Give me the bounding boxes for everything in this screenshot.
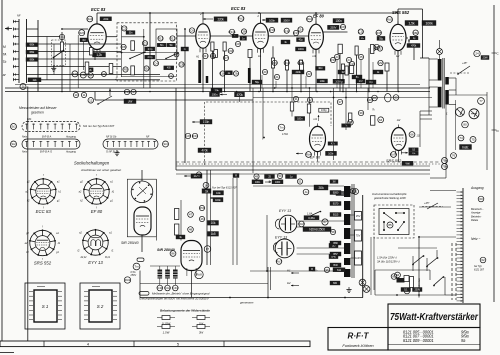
resistor col B: [175, 224, 179, 235]
terminal stub: [457, 224, 463, 226]
wire R38 down: [413, 48, 415, 61]
svg-text:Netz ~: Netz ~: [471, 237, 480, 241]
junction: [267, 297, 269, 299]
terminal stub: [457, 198, 463, 200]
sheet edge tick D: [492, 129, 500, 133]
wire selector out 1: [77, 35, 79, 88]
svg-text:H1: H1: [258, 54, 262, 58]
svg-text:Tm: Tm: [134, 265, 139, 269]
lamp La2: [363, 286, 370, 293]
node 21: [274, 74, 279, 79]
svg-text:R9: R9: [124, 68, 128, 72]
input plus arrow: [5, 27, 12, 31]
node R35: [376, 30, 382, 35]
switch standby: [450, 66, 470, 75]
resistor R64: [371, 116, 375, 126]
svg-text:B·R·B·A: B·R·B·A: [42, 136, 52, 139]
svg-text:40µ: 40µ: [299, 38, 304, 42]
svg-text:C8: C8: [236, 42, 240, 46]
wire V5 down: [397, 51, 399, 92]
value box 5ohm: [329, 243, 338, 247]
svg-text:TA: TA: [3, 52, 7, 56]
tube V10 EYY 13: [279, 215, 297, 233]
output transformer core: [351, 184, 353, 278]
junction: [224, 91, 226, 93]
wire lamp bottom: [439, 55, 441, 60]
wire mid drop: [184, 88, 186, 163]
svg-text:Tb: Tb: [3, 60, 7, 64]
svg-text:C8b: C8b: [241, 30, 247, 34]
arrow H2: [291, 285, 299, 287]
wire R51 top: [309, 88, 311, 104]
svg-text:1000µ: 1000µ: [335, 79, 343, 83]
selector pin: [397, 229, 399, 231]
tube ref Roe1: [87, 16, 93, 22]
switch tone a: [129, 51, 146, 59]
capacitor C52 value: [326, 151, 337, 155]
wire V4 down: [315, 49, 317, 91]
wire extra 5: [336, 60, 338, 88]
svg-text:1k: 1k: [205, 189, 209, 193]
wire extra 3: [291, 74, 293, 88]
resistor R14: [223, 42, 226, 51]
wire mid v2: [345, 88, 347, 130]
resistor grid stopper: [90, 48, 93, 56]
input terminal 1: [13, 20, 19, 23]
svg-text:8121 009 - 00001: 8121 009 - 00001: [403, 338, 434, 343]
tube V8 StR 280/40: [134, 207, 151, 235]
secondary winding 15V: [355, 212, 362, 221]
resistor value col: [202, 189, 211, 194]
svg-text:ar: ar: [3, 73, 7, 77]
wire heater winding 3 up: [174, 266, 176, 270]
output transformer winding 1: [344, 186, 350, 197]
svg-text:60: 60: [479, 197, 483, 201]
voltage label 350V: [281, 18, 292, 22]
node C7: [223, 55, 228, 60]
svg-text:5: 5: [177, 342, 180, 347]
svg-text:Sockelschaltungen: Sockelschaltungen: [74, 161, 110, 166]
svg-text:EF 80: EF 80: [310, 156, 321, 160]
wire mid bus: [95, 99, 253, 101]
wire mid stub: [239, 97, 241, 102]
resistor 3W value: [124, 99, 136, 104]
wire bottom bus: [140, 297, 363, 299]
svg-text:R: R: [311, 267, 313, 271]
svg-text:R10: R10: [144, 67, 150, 71]
svg-text:EYY 13: EYY 13: [88, 260, 103, 265]
power tube top pin: [139, 182, 141, 184]
resistor 30k value: [314, 185, 328, 190]
power tube top pin: [148, 184, 150, 186]
transformer ref Tm: [133, 263, 140, 270]
svg-text:66: 66: [410, 133, 414, 137]
svg-text:1Ω: 1Ω: [417, 135, 420, 138]
tube ref Roe5: [387, 17, 393, 23]
junction: [344, 297, 346, 299]
terminal stub: [457, 284, 463, 286]
junction: [263, 137, 265, 139]
secondary winding 110V: [355, 251, 362, 265]
wire top rail right: [398, 8, 423, 10]
node 74: [458, 135, 464, 141]
svg-text:R26: R26: [340, 25, 346, 29]
svg-text:S 1: S 1: [42, 304, 49, 309]
svg-text:Meßwerte der „Betrieb“ ohne Ei: Meßwerte der „Betrieb“ ohne Eingangssign…: [152, 292, 210, 296]
svg-text:B40: B40: [333, 263, 338, 267]
capacitor C5 value: [157, 43, 166, 47]
svg-text:75: 75: [471, 138, 475, 142]
tube ref Roe8: [195, 270, 203, 278]
node R19: [293, 30, 299, 35]
svg-text:10k: 10k: [211, 221, 216, 225]
node C12: [284, 60, 290, 65]
junction: [398, 91, 400, 93]
capacitor value extra 3: [366, 80, 376, 84]
node 76: [451, 153, 457, 159]
svg-text:C15: C15: [358, 30, 364, 34]
switch anode: [307, 211, 321, 218]
svg-text:79a: 79a: [442, 159, 447, 163]
node 48: [188, 227, 194, 233]
resistor R53: [349, 113, 352, 122]
meter scale S2: [80, 283, 120, 329]
wire terminal strip bus: [462, 188, 464, 303]
node 96: [324, 267, 329, 272]
svg-text:k2: k2: [80, 200, 83, 203]
svg-text:R40: R40: [124, 90, 130, 94]
svg-text:1k5: 1k5: [211, 232, 216, 236]
svg-text:2: 2: [256, 14, 259, 18]
svg-text:B57: B57: [333, 252, 338, 256]
svg-text:51: 51: [354, 190, 358, 194]
output transformer winding 7: [344, 269, 350, 277]
resistor R38 value: [407, 44, 420, 48]
tube ref Roe9: [124, 277, 130, 283]
node C8: [179, 62, 184, 67]
resistor R24 value: [281, 40, 290, 44]
tube ref Roe4: [306, 152, 312, 158]
wire R27 down: [339, 54, 341, 92]
svg-text:470k: 470k: [411, 44, 417, 48]
svg-text:d2,k2: d2,k2: [81, 256, 88, 259]
junction: [258, 12, 260, 14]
svg-text:R41: R41: [192, 134, 198, 138]
winding tap value B57: [330, 252, 341, 256]
node 45b: [199, 205, 204, 210]
resistor R13 value: [164, 66, 174, 70]
wire Tr1 tap 3: [429, 86, 438, 88]
label 1W b: [356, 79, 365, 83]
capacitor 47n value: [360, 36, 366, 40]
wire col 2: [210, 170, 212, 265]
wire mains v2: [429, 270, 431, 280]
winding tap value B80: [330, 241, 341, 245]
svg-text:R11: R11: [158, 37, 164, 41]
svg-text:R8: R8: [122, 45, 126, 49]
wire C17 down: [368, 48, 370, 92]
terminal stub: [457, 204, 463, 206]
wire extra 7: [360, 60, 362, 88]
svg-text:87: 87: [206, 247, 210, 251]
input terminal 8: [13, 73, 19, 76]
arrow box col: [210, 197, 217, 199]
node 14: [203, 182, 209, 188]
winding tap value B115: [330, 213, 341, 217]
wire V1 pin: [94, 54, 96, 61]
arrow box lower: [184, 175, 191, 177]
legend resistor 0,15W: [157, 316, 175, 326]
svg-text:EF 80: EF 80: [91, 209, 103, 214]
terminal stub: [457, 257, 463, 259]
node 32: [307, 97, 312, 102]
svg-text:Bereitsch.-: Bereitsch.-: [471, 207, 484, 211]
svg-text:14: 14: [204, 183, 208, 187]
node R26: [340, 24, 346, 29]
wire sec110 tap: [350, 257, 354, 259]
socket diagram EF 80: [79, 174, 115, 214]
selector inner: [379, 209, 409, 235]
selector dashed box: [52, 40, 66, 65]
wire heater winding 1 up: [159, 266, 161, 270]
wire sec to meter: [455, 78, 457, 95]
node 82: [391, 274, 397, 280]
terminal 2 arrow: [203, 18, 213, 20]
wire V4 anode up: [315, 13, 317, 24]
wire to strip 2: [419, 206, 451, 208]
terminal stub: [457, 270, 463, 272]
power tube top pin: [150, 193, 152, 195]
wire screen down left: [27, 87, 29, 342]
junction: [368, 91, 370, 93]
resistor R37: [385, 63, 389, 71]
svg-text:Netz: Netz: [22, 151, 28, 154]
wire R20 down: [272, 68, 274, 92]
svg-text:Netz: Netz: [22, 136, 28, 139]
svg-text:74: 74: [459, 136, 463, 140]
wire fb 2: [420, 114, 432, 116]
label 20W: [481, 56, 489, 60]
ground St3: [114, 150, 119, 156]
input terminal 6: [13, 57, 19, 60]
svg-text:a1: a1: [110, 181, 113, 184]
junction: [149, 12, 151, 14]
svg-text:k1: k1: [112, 191, 115, 194]
junction: [309, 87, 311, 89]
svg-text:100n: 100n: [255, 180, 261, 184]
svg-text:Relais: Relais: [471, 218, 479, 222]
wire R21 down: [286, 70, 288, 92]
node R14: [168, 74, 174, 79]
switch mains: [433, 276, 444, 286]
wire Tr1 sec tap 2: [449, 89, 456, 91]
svg-text:100n: 100n: [335, 19, 342, 23]
svg-text:Rö7b: Rö7b: [390, 153, 398, 157]
svg-text:Messerleisten auf Messer: Messerleisten auf Messer: [19, 106, 57, 110]
meter M1: [469, 109, 479, 119]
wire mid drop 3: [262, 88, 264, 138]
svg-text:220k: 220k: [295, 70, 301, 74]
svg-text:St3: St3: [163, 142, 168, 146]
wire mid v1: [333, 88, 335, 160]
wire power col right: [155, 179, 157, 241]
svg-text:250V: 250V: [130, 274, 137, 277]
svg-text:470k: 470k: [201, 149, 208, 153]
wire B+ drop: [422, 9, 424, 58]
svg-text:470k: 470k: [236, 93, 243, 97]
tube ref Roe3: [307, 16, 313, 22]
svg-text:100p: 100p: [321, 108, 327, 112]
wire heater bus 1: [176, 169, 430, 171]
svg-text:Js: Js: [305, 190, 309, 194]
value box 2k: [225, 71, 232, 75]
selector links: [384, 213, 404, 230]
node 66b: [413, 30, 419, 35]
svg-text:H2: H2: [397, 118, 401, 122]
wire selector out 2: [83, 42, 85, 70]
wire extra 8: [372, 62, 374, 88]
wire supply drop: [149, 13, 151, 88]
svg-text:96: 96: [325, 268, 329, 272]
svg-text:Funkwerk-Köthen: Funkwerk-Köthen: [342, 343, 374, 348]
node 49: [254, 174, 259, 179]
svg-text:H1: H1: [314, 117, 318, 121]
value box 1u: [286, 175, 297, 179]
wire eyy bottom: [250, 270, 344, 272]
resistor V2 cathode value: [181, 47, 189, 51]
svg-text:k2: k2: [27, 200, 30, 203]
input selector switch: [53, 50, 65, 59]
svg-text:C2: C2: [122, 27, 126, 31]
wire Tr1 tap 1: [429, 58, 438, 60]
resistor value nur: [213, 191, 224, 195]
wire contact b: [426, 258, 428, 271]
wire V6 bottom: [317, 152, 319, 162]
wire R3 down: [61, 51, 63, 92]
resistor R28: [341, 64, 344, 73]
node 20: [262, 69, 267, 74]
junction: [315, 12, 317, 14]
svg-text:8121 007: 8121 007: [474, 269, 485, 272]
node Js: [303, 189, 309, 195]
terminal stub: [457, 264, 463, 266]
svg-text:g1: g1: [56, 251, 59, 254]
terminal stub: [457, 297, 463, 299]
node Rb: [372, 95, 378, 101]
wire heater top: [150, 265, 180, 267]
wire input line: [27, 43, 122, 45]
svg-text:Nur bei Typ 8121 007: Nur bei Typ 8121 007: [212, 186, 237, 190]
wire V2 out: [210, 35, 252, 37]
ground fan: [346, 287, 351, 293]
resistor value col 2: [208, 221, 219, 226]
node 87: [204, 246, 211, 253]
junction: [330, 91, 332, 93]
wire Tr1 sec tap 1: [449, 77, 456, 79]
node 23: [334, 54, 339, 59]
svg-text:ECC 83: ECC 83: [231, 6, 246, 11]
wire heater drop 2: [270, 267, 272, 290]
heater winding 1: [158, 270, 163, 279]
node R17: [203, 53, 209, 58]
resistor 612 value: [333, 268, 345, 272]
junction: [377, 91, 379, 93]
output transformer core 2: [353, 184, 355, 278]
svg-text:C: C: [497, 52, 500, 56]
resistor mid value: [235, 92, 245, 97]
svg-text:100k: 100k: [425, 22, 433, 26]
svg-text:Anschlüsse von unten gesehen: Anschlüsse von unten gesehen: [80, 168, 122, 172]
capacitor 50u value: [377, 36, 385, 40]
node 79b: [442, 164, 448, 170]
resistor R39 value: [373, 70, 383, 74]
node C8: [235, 41, 240, 46]
node R4b: [72, 71, 78, 77]
shield enclosure dashed: [205, 102, 332, 165]
screened cable V2: [198, 60, 201, 83]
node 58: [330, 229, 335, 234]
wire extra 6: [348, 63, 350, 88]
node 52: [350, 188, 355, 193]
junction: [61, 28, 63, 30]
output transformer winding 6: [344, 258, 350, 265]
wire to V2 grid: [177, 35, 196, 37]
svg-text:R4: R4: [89, 74, 93, 78]
svg-text:100n: 100n: [212, 93, 218, 97]
bracket V11: [273, 243, 277, 253]
selector pin: [383, 212, 385, 214]
junction: [356, 91, 358, 93]
wire to strip 4: [445, 294, 456, 296]
wire long bus 3: [176, 165, 430, 167]
svg-text:f: f: [43, 174, 44, 177]
wire exy1 out: [297, 220, 344, 222]
node C20: [374, 44, 380, 49]
selector pin: [403, 221, 405, 223]
wire exy1 out2: [297, 226, 320, 228]
resistor R9: [131, 66, 135, 75]
selector pin: [383, 229, 385, 231]
tube V7 SRS 552 b: [391, 125, 406, 155]
terminal stub: [457, 221, 463, 223]
node R41: [192, 133, 198, 138]
node 22: [306, 71, 311, 76]
junction: [266, 270, 268, 272]
svg-text:g2: g2: [27, 181, 30, 184]
wire to V1 grid: [62, 28, 88, 30]
input terminal 2: [13, 27, 19, 30]
svg-text:St1: St1: [11, 125, 16, 129]
svg-text:SRS 552: SRS 552: [34, 261, 52, 266]
tube V11 EYY 13: [275, 239, 294, 258]
resistor input shunt: [28, 78, 41, 82]
svg-text:C20: C20: [374, 45, 380, 49]
svg-text:32: 32: [308, 98, 312, 102]
node St: [20, 84, 26, 90]
svg-text:23: 23: [335, 55, 339, 59]
wire V3 out: [268, 35, 308, 37]
wire meter frame right: [486, 92, 488, 170]
wire heater bottom: [140, 283, 268, 285]
junction: [258, 91, 260, 93]
svg-text:StR 280/40: StR 280/40: [121, 241, 139, 245]
svg-text:100n: 100n: [203, 120, 210, 124]
wire mid v3: [367, 88, 369, 110]
tube V1 ECC 83: [88, 21, 106, 54]
wire lamp top: [439, 40, 441, 49]
resistor R4: [85, 62, 89, 74]
svg-text:77: 77: [479, 99, 483, 103]
